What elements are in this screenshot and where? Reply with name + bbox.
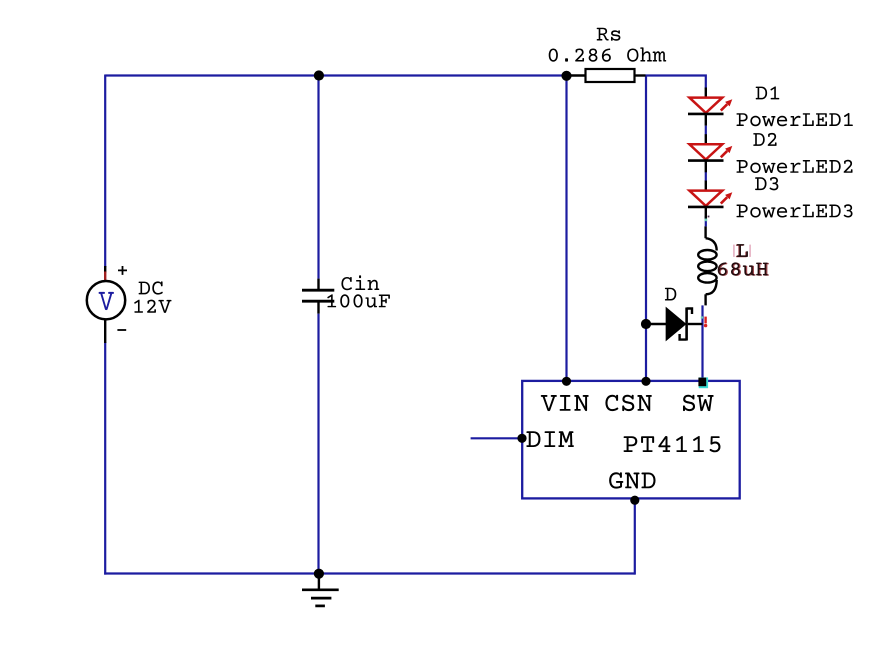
wire left vertical upper <box>104 75 106 268</box>
wire bottom horizontal <box>104 572 635 574</box>
wire top horizontal right of resistor <box>646 76 706 89</box>
wire capacitor branch upper <box>317 76 319 279</box>
diode D schottky bottom hook <box>680 334 687 340</box>
capacitor Cin top plate <box>302 289 334 292</box>
diode D triangle <box>666 308 685 340</box>
LED D3 cathode bar <box>688 206 724 209</box>
wire LED gap 3 <box>705 216 707 226</box>
ground stub <box>318 577 320 590</box>
inductor L coil <box>706 238 717 250</box>
capacitor Cin bottom lead <box>317 302 319 314</box>
LED D3 arrow <box>721 197 727 203</box>
LED D2 arrow <box>721 151 727 157</box>
resistor Rs body <box>586 69 635 82</box>
teal pixel at diode junction <box>701 316 703 318</box>
wire VIN vertical <box>565 76 567 381</box>
junction dot bottom cap branch <box>314 569 324 579</box>
label PowerLED3 <box>737 204 853 217</box>
red exclamation mark <box>704 317 706 324</box>
junction dot resistor left <box>561 71 571 81</box>
label DC <box>139 281 163 294</box>
inductor L top lead <box>704 226 706 238</box>
IC U1 PT4115 box <box>522 381 740 499</box>
resistor Rs label <box>597 28 621 41</box>
label D2 <box>753 133 776 146</box>
resistor Rs lead right <box>635 74 646 76</box>
pin label SW <box>683 395 714 411</box>
pin label GND <box>609 472 655 488</box>
LED D3 top lead <box>705 181 707 191</box>
capacitor Cin bottom plate <box>302 300 334 303</box>
voltage source V1 top black pin <box>104 266 106 273</box>
pin dot GND <box>630 496 639 505</box>
wire left vertical lower <box>104 342 106 575</box>
label PowerLED1 <box>737 113 853 126</box>
diode D cathode lead <box>688 323 703 325</box>
ground bar 1 <box>302 588 339 591</box>
pin dot DIM <box>517 434 526 443</box>
wire SW vertical <box>701 305 703 381</box>
LED D3 bottom lead <box>705 207 707 219</box>
LED D2 cathode bar <box>688 159 724 162</box>
capacitor Cin top lead <box>317 279 319 290</box>
plus sign <box>118 266 127 275</box>
voltage source V letter <box>99 292 114 310</box>
SW pin cyan marker <box>699 377 708 388</box>
pin dot CSN <box>641 377 650 386</box>
LED D2 top lead <box>705 134 707 144</box>
label L <box>736 244 747 257</box>
voltage source bottom black pin <box>104 319 106 343</box>
label L black pass <box>737 244 748 257</box>
resistor Rs lead left <box>567 74 586 76</box>
ground bar 3 <box>315 605 325 608</box>
purple dot above inductor <box>708 216 710 218</box>
LED D2 triangle <box>689 144 722 159</box>
LED D1 triangle <box>689 98 722 113</box>
junction dot top cap branch <box>314 70 324 80</box>
junction dot diode anode <box>641 319 651 329</box>
LED D1 bottom lead <box>705 114 707 126</box>
wire capacitor branch lower <box>317 314 319 574</box>
wire top horizontal left <box>105 74 567 76</box>
minus sign <box>117 329 126 331</box>
label D3 <box>755 177 778 190</box>
label PowerLED2 <box>737 160 853 173</box>
label 100uF <box>327 294 390 307</box>
diode D schottky top hook <box>687 309 692 315</box>
pin label DIM <box>526 431 573 447</box>
pin dot VIN <box>562 377 571 386</box>
label Cin <box>341 275 379 290</box>
label 68uH <box>719 263 769 276</box>
pink mark right of L <box>749 245 751 257</box>
resistor Rs value <box>549 47 667 61</box>
LED D1 arrow <box>721 104 727 110</box>
inductor L bottom lead <box>704 294 706 305</box>
label D <box>665 288 676 301</box>
wire LED gap 2 <box>705 172 707 181</box>
LED D1 top lead <box>705 88 707 98</box>
wire LED gap 1 <box>705 126 707 135</box>
label PT4115 <box>624 436 721 452</box>
LED D3 triangle <box>689 191 722 206</box>
ground bar 2 <box>311 597 331 600</box>
label 12V <box>134 300 171 313</box>
diode D schottky bar <box>685 308 688 341</box>
teal marker above inductor <box>705 219 708 222</box>
wire GND vertical <box>634 498 636 575</box>
label 68uH black pass <box>718 262 768 275</box>
SW pin black dot <box>698 378 706 387</box>
label D1 <box>756 86 780 99</box>
voltage source V1 circle <box>87 281 125 319</box>
wire DIM <box>471 437 522 439</box>
pin label VIN <box>541 395 589 411</box>
voltage source V1 plus pin red <box>104 272 106 282</box>
pink mark left of L <box>733 245 735 257</box>
pin label CSN <box>605 395 651 411</box>
wire CSN vertical <box>645 76 647 382</box>
LED D2 bottom lead <box>705 161 707 173</box>
diode D anode lead <box>646 323 666 325</box>
LED D1 cathode bar <box>688 113 724 116</box>
